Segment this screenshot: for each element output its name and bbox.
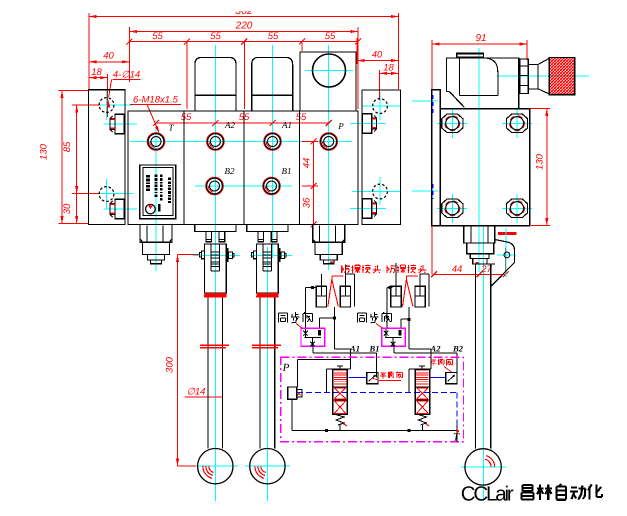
centerline A1 column: [272, 45, 274, 258]
hex bolt right plate top: [363, 114, 372, 133]
svg-text:A2: A2: [430, 344, 442, 354]
dim 55 row1 line: [129, 41, 358, 43]
bottom T bus: [292, 430, 457, 432]
dim 44-27 ext right: [505, 248, 507, 274]
dim 91 ext left long: [431, 40, 433, 274]
conn2 bottom wires: [408, 307, 410, 319]
pilot line blue right: [456, 393, 458, 429]
dim 55 row1 ext c: [301, 42, 303, 52]
right end plate: [362, 90, 401, 225]
centerline ball 3: [461, 466, 506, 468]
centerline T column: [155, 120, 157, 271]
dim 18 left: [89, 77, 107, 79]
knob interface: [520, 59, 528, 94]
centerline right bolt 2: [350, 208, 386, 210]
svg-text:85: 85: [62, 141, 73, 152]
knob ball 3: [465, 449, 501, 485]
hex bolt left plate bottom: [115, 199, 124, 218]
centerline lever A1: [266, 247, 268, 501]
side rod: [475, 264, 477, 449]
conn1 bottom wires: [333, 307, 335, 318]
dim 18R ext hole: [378, 70, 380, 100]
circuit boundary P-T box: [281, 357, 464, 442]
port B2: [206, 177, 224, 195]
valve top cover 2: [252, 57, 293, 111]
mounting hole bottom-right: [373, 184, 388, 199]
dim 220 ext left: [128, 27, 130, 82]
label sync 2: [357, 313, 359, 323]
red joint line lever A1: [252, 344, 281, 346]
centerline left hole 2: [88, 193, 133, 195]
label pingheng 2: [431, 359, 436, 361]
dim 44-36 ext a: [302, 141, 318, 143]
side bolt BL: [442, 199, 463, 218]
dim 130 left: [61, 91, 63, 224]
dim 18 ext hole: [106, 74, 108, 117]
dim 130 side ext top: [525, 108, 550, 110]
svg-text:55: 55: [181, 112, 192, 123]
svg-text:A1: A1: [281, 120, 292, 130]
centerline right bolt 1: [350, 123, 386, 125]
centerline circle horizontal: [305, 70, 353, 72]
dim 91: [432, 43, 527, 45]
port T: [147, 133, 165, 151]
pilot valve 1: [367, 372, 378, 383]
svg-text:55: 55: [325, 31, 336, 42]
centerline lever A2 pin: [193, 255, 240, 257]
svg-text:130: 130: [39, 143, 50, 160]
svg-text:A2: A2: [224, 120, 235, 130]
main manifold body: [128, 111, 358, 225]
port A1: [264, 133, 282, 151]
T bus to T: [456, 425, 458, 442]
centerline ball 1: [193, 465, 239, 467]
side fitting tip red: [475, 262, 478, 264]
conn1 stub L: [320, 274, 322, 286]
side bottom fitting: [464, 226, 495, 243]
knob neck: [528, 65, 538, 89]
svg-text:44: 44: [452, 264, 463, 275]
centerline left hole 1: [88, 104, 133, 106]
svg-text:44: 44: [302, 158, 313, 169]
centerline ball 2: [245, 465, 290, 467]
centerline P column: [328, 45, 330, 270]
centerline right hole 1: [362, 105, 400, 107]
dim 130 left ext bot: [59, 222, 89, 224]
manual lever A1: [247, 225, 288, 232]
red dot T corner: [456, 430, 459, 433]
dim 44-36 ext b: [302, 185, 318, 187]
dim 300 ext top: [178, 254, 200, 256]
centerline knob horizontal: [497, 75, 589, 77]
label fangbao 2: [386, 265, 388, 273]
svg-text:18: 18: [91, 67, 102, 78]
name plate: [140, 165, 176, 219]
knob taper: [538, 58, 549, 64]
svg-text:300: 300: [165, 356, 176, 373]
sync valve 2 outlet: [393, 346, 395, 353]
dim overall ext right: [398, 13, 400, 89]
svg-text:T: T: [453, 432, 460, 444]
dim 85 ext a: [72, 104, 100, 106]
svg-text:220: 220: [235, 21, 253, 32]
conn2 stub R: [419, 274, 421, 286]
conn2 red leader triangle: [406, 275, 418, 277]
body section divider 1: [183, 111, 185, 225]
svg-text:6-M18x1.5: 6-M18x1.5: [133, 95, 179, 106]
conn1 bus right: [346, 273, 355, 275]
svg-text:55: 55: [268, 31, 279, 42]
centerline lever A1 pin: [250, 255, 292, 257]
P fitting red mark: [330, 261, 334, 263]
hex bolt left plate top: [115, 114, 124, 133]
manual lever A2: [195, 225, 236, 232]
dim 55 row1 ext a: [186, 42, 188, 110]
svg-text:55: 55: [296, 112, 307, 123]
wire A2 drop: [430, 360, 432, 369]
T port fitting: [140, 225, 172, 243]
svg-text:CCLair: CCLair: [461, 482, 514, 505]
svg-text:55: 55: [152, 31, 163, 42]
wire A1 drop: [350, 360, 352, 369]
svg-text:130: 130: [535, 153, 546, 170]
dim 130 left ext top: [59, 90, 89, 92]
balance valve 1: [333, 369, 348, 414]
conn2 wire left: [387, 287, 392, 289]
svg-text:40: 40: [103, 51, 114, 62]
centerline side bolt BR: [502, 207, 532, 209]
svg-text:36: 36: [302, 197, 313, 208]
dim 91 ext right: [526, 40, 528, 60]
side main body: [440, 109, 529, 226]
centerline A2/lever column: [214, 45, 216, 501]
wire filter drain: [291, 399, 293, 430]
dim overall length line: [89, 16, 399, 18]
valve top cover 1: [195, 57, 236, 111]
left end plate: [89, 90, 126, 225]
P port fitting: [313, 225, 345, 243]
label sync 1: [278, 313, 280, 323]
conn2 stub L: [395, 263, 397, 286]
dim 40R ext: [356, 38, 358, 64]
balance valve 2: [415, 369, 430, 414]
svg-text:30: 30: [62, 203, 73, 214]
mounting hole top-left: [99, 98, 114, 113]
label fangbao 1: [341, 265, 343, 273]
centerline side plate row 2: [412, 190, 438, 192]
dim 55 row1 ext b: [243, 42, 245, 110]
dim 220: [129, 31, 358, 33]
side bolt BR: [506, 199, 527, 218]
conn1 red leader triangle: [332, 275, 344, 277]
dim 44-27: [434, 273, 506, 275]
svg-text:A1: A1: [349, 344, 360, 354]
dim 220 ext right: [357, 27, 359, 109]
side plate blue mark 2: [432, 184, 434, 199]
svg-text:B2: B2: [452, 344, 464, 354]
relief block: [300, 52, 356, 111]
side bolt TR: [506, 114, 527, 133]
side bracket: [495, 240, 508, 243]
body section divider 3: [299, 111, 301, 225]
dim 55 row2: [156, 122, 329, 124]
red joint line lever A2: [200, 344, 229, 346]
label pingheng 1: [380, 372, 385, 374]
conn1 stub R: [345, 265, 347, 287]
port P: [320, 133, 338, 151]
centerline B-port row: [195, 185, 292, 187]
svg-text:55: 55: [210, 31, 221, 42]
pilot line blue main: [297, 392, 457, 394]
pilot blue seg 2: [430, 376, 446, 378]
wire B2 drop: [456, 360, 458, 377]
dim 30: [76, 194, 78, 224]
svg-text:B2: B2: [225, 166, 235, 176]
centerline side bolt TR: [502, 122, 532, 124]
svg-text:P: P: [282, 362, 290, 374]
svg-text:P: P: [337, 121, 344, 131]
centerline side bolt BL: [437, 207, 467, 209]
wire P supply: [297, 359, 350, 361]
dim 300 ext bot: [178, 465, 197, 467]
side bolt TL: [442, 114, 463, 133]
dim 18 right: [379, 72, 398, 74]
port A2: [207, 133, 225, 151]
relief block circle: [313, 54, 346, 87]
dim 85 ext b: [72, 193, 100, 195]
svg-text:91: 91: [475, 33, 486, 44]
centerline left bolt 2: [104, 208, 137, 210]
svg-text:18: 18: [383, 63, 394, 74]
body section divider 2: [243, 111, 245, 225]
centerline side bolt TL: [437, 122, 467, 124]
centerline side plate row 1: [412, 100, 438, 102]
dim overall ext left: [88, 13, 90, 90]
explosion-proof connector 1: [316, 286, 326, 307]
svg-text:∅14: ∅14: [187, 387, 206, 398]
side left plate: [432, 90, 441, 226]
hex bolt right plate bottom: [363, 199, 372, 218]
svg-text:4-∅14: 4-∅14: [113, 70, 140, 81]
side plate blue mark 1: [432, 95, 434, 114]
sync valve 2: [382, 328, 406, 346]
svg-text:40: 40: [372, 50, 383, 61]
conn2 bus right: [420, 273, 429, 275]
mounting hole bottom-left: [99, 187, 114, 202]
mounting hole top-right: [373, 99, 388, 114]
centerline A-port row: [130, 141, 352, 143]
P filter: [288, 387, 297, 399]
dim 85: [76, 105, 78, 194]
sync valve 1: [301, 328, 325, 346]
dim 40 right: [357, 60, 399, 62]
side top cap: [457, 53, 484, 57]
centerline side rod vertical: [482, 226, 484, 501]
dim 40 left: [89, 61, 129, 63]
conn1 wire left: [306, 287, 317, 289]
side red seal: [498, 232, 517, 235]
centerline left bolt 1: [104, 123, 137, 125]
wire B1 drop: [375, 360, 377, 377]
side top block: [446, 58, 518, 109]
svg-text:B1: B1: [282, 166, 292, 176]
svg-text:55: 55: [239, 112, 250, 123]
explosion-proof connector 2: [391, 286, 401, 307]
svg-text:B1: B1: [369, 344, 380, 354]
sync valve 1 outlet: [312, 346, 314, 353]
centerline right hole 2: [352, 191, 400, 193]
dim 44-36 vertical: [313, 142, 315, 225]
dim 300: [177, 255, 179, 467]
port B1: [263, 177, 281, 195]
centerline bracket circle: [505, 228, 507, 277]
dim 130 side ext bot: [531, 225, 550, 227]
pilot valve 2: [446, 372, 457, 383]
knurled adjustment knob: [549, 58, 575, 95]
knob ball 1: [198, 449, 233, 484]
centerline side view vertical: [478, 48, 480, 272]
pilot blue seg 1: [349, 376, 367, 378]
dim 130 side: [546, 109, 548, 226]
knob ball 2: [250, 449, 285, 484]
